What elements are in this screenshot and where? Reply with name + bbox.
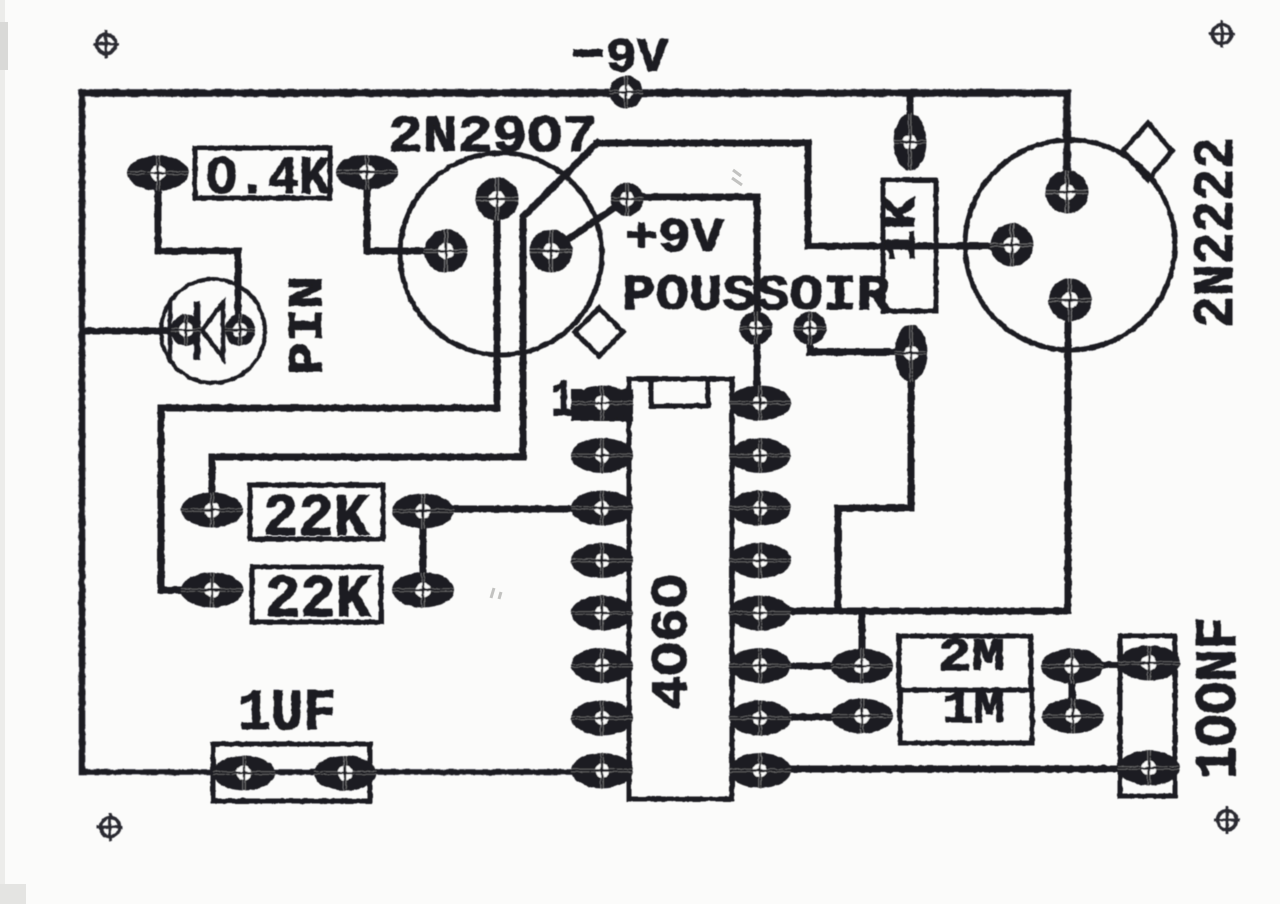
svg-text:22K: 22K (265, 567, 371, 635)
svg-text:PIN: PIN (282, 276, 336, 375)
svg-text:1K: 1K (878, 196, 928, 262)
svg-text:22K: 22K (263, 486, 369, 554)
svg-text:POUSSOIR: POUSSOIR (622, 268, 890, 325)
svg-text:1UF: 1UF (238, 682, 336, 747)
svg-text:1OONF: 1OONF (1188, 617, 1253, 779)
svg-text:4O6O: 4O6O (645, 574, 702, 710)
svg-text:2M: 2M (938, 632, 1005, 684)
svg-text:9V: 9V (606, 32, 668, 86)
svg-text:O.4K: O.4K (206, 149, 331, 210)
svg-text:2N2222: 2N2222 (1186, 137, 1250, 328)
svg-text:1M: 1M (942, 684, 1005, 736)
svg-text:+9V: +9V (625, 212, 724, 266)
svg-text:2N29O7: 2N29O7 (388, 108, 597, 167)
svg-text:1: 1 (551, 372, 574, 431)
